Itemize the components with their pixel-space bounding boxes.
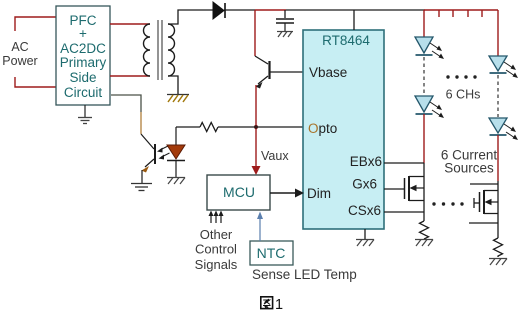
- wire rail to IC supply: [353, 10, 355, 30]
- node channel tick 2: [452, 10, 454, 17]
- transformer T1 primary winding: [144, 24, 151, 76]
- wire secondary bottom to ground: [168, 76, 178, 94]
- ground optocoupler LED (hatched): [167, 178, 185, 185]
- node channel tick 1: [438, 10, 440, 17]
- wire resistor to Opto pin: [218, 126, 303, 128]
- label Other Control Signals: [195, 227, 238, 272]
- label 6 Current Sources: [441, 148, 498, 176]
- optocoupler LED D2: [167, 127, 185, 177]
- wire CS continuation to MOSFET 2: [469, 222, 498, 224]
- wire MCU control pin 1: [209, 211, 214, 224]
- LED D5: [489, 56, 518, 78]
- svg-text:Dim: Dim: [307, 186, 331, 201]
- wire rail black segment: [286, 9, 425, 11]
- LED D4: [415, 96, 444, 118]
- wire arrow into MCU (Vaux supply): [252, 166, 261, 175]
- block NTC: [250, 241, 293, 265]
- capacitor C1: [276, 19, 294, 23]
- wire rail red segment: [255, 9, 286, 11]
- wire aux tan segment: [140, 112, 142, 134]
- svg-text:EBx6: EBx6: [350, 154, 382, 169]
- label AC Power: [2, 40, 37, 68]
- svg-text:CSx6: CSx6: [348, 203, 381, 218]
- svg-text:Circuit: Circuit: [64, 85, 103, 100]
- svg-text:RT8464: RT8464: [322, 33, 370, 48]
- node Vaux junction dot: [254, 125, 258, 129]
- svg-text:MCU: MCU: [223, 184, 255, 200]
- node AC input top wire: [15, 17, 56, 31]
- capacitor C1 top stub: [284, 10, 286, 18]
- ground IC RT8464 (hatched): [356, 240, 374, 247]
- ground MOSFET M2 (hatched): [489, 259, 507, 266]
- svg-text:6 CHs: 6 CHs: [446, 88, 481, 102]
- wire base to Vbase pin: [270, 71, 303, 73]
- wire secondary top to rail: [168, 10, 213, 24]
- pin Opto: [308, 121, 337, 136]
- wire PFC ground stub: [84, 105, 86, 117]
- LED D6: [489, 118, 518, 140]
- ground MOSFET M1 (hatched): [415, 240, 433, 247]
- wire Gx6 to MOSFET gate: [384, 188, 404, 190]
- transformer T1 secondary winding: [168, 24, 175, 76]
- svg-text:Vbase: Vbase: [309, 65, 347, 80]
- wire Dim arrow MCU to IC: [270, 189, 304, 198]
- wire PFC aux output: [111, 95, 141, 112]
- wire LED string 2 down: [497, 135, 499, 181]
- svg-text:NTC: NTC: [257, 245, 286, 261]
- block MCU: [207, 175, 270, 210]
- svg-text:O: O: [308, 121, 319, 136]
- svg-text:Control: Control: [195, 242, 237, 257]
- resistor R3 (sense): [494, 238, 503, 257]
- LED D3: [415, 37, 444, 59]
- wire PFC to transformer primary top: [110, 23, 150, 25]
- svg-text:Power: Power: [2, 54, 37, 68]
- svg-text:1: 1: [275, 297, 283, 312]
- wire rail to transistor collector: [254, 10, 256, 56]
- optocoupler U2 phototransistor: [141, 134, 155, 183]
- wire PFC to transformer primary bottom: [110, 75, 150, 77]
- wire emitter down to Vaux node and MCU: [255, 85, 257, 168]
- wire LED anode to resistor: [176, 126, 200, 128]
- wire dashed LED string 2: [497, 75, 499, 117]
- svg-text:AC: AC: [11, 40, 28, 54]
- ground under PFC box: [78, 118, 92, 124]
- wire diode to transistor node: [224, 9, 255, 11]
- optocoupler light arrows: [157, 146, 170, 160]
- wire dashed LED string 1: [423, 57, 425, 95]
- wire EB continuation to MOSFET 2: [470, 183, 498, 185]
- wire CSx6 to MOSFET source: [384, 211, 424, 213]
- wire rail to LED string 2: [497, 10, 499, 56]
- wire NTC to MCU arrow: [257, 212, 263, 242]
- transformer T1 core: [158, 20, 162, 80]
- ground transformer secondary (hatched): [167, 95, 189, 103]
- svg-text:Signals: Signals: [195, 257, 238, 272]
- svg-text:Sense LED Temp: Sense LED Temp: [252, 267, 357, 282]
- wire EBx6 to LED string 1: [384, 162, 424, 164]
- wire LED string 1 to MOSFET drain: [423, 114, 425, 163]
- svg-text:Primary: Primary: [60, 55, 107, 70]
- resistor R2 (sense): [420, 221, 429, 239]
- transistor M2 (MOSFET): [480, 181, 499, 238]
- label figure caption 图1: [261, 297, 283, 312]
- svg-text:pto: pto: [319, 121, 338, 136]
- ground under phototransistor: [131, 184, 152, 191]
- wire rail to LED string 1: [423, 10, 425, 37]
- wire capacitor to ground: [284, 23, 286, 31]
- svg-text:+: +: [79, 26, 87, 41]
- wire AC input bottom: [15, 77, 56, 87]
- svg-text:Sources: Sources: [444, 161, 494, 176]
- svg-text:Side: Side: [69, 70, 96, 85]
- wire MCU control pin 3: [219, 211, 224, 224]
- ground capacitor (hatched): [277, 32, 293, 38]
- resistor R1 (opto series): [200, 123, 218, 132]
- transistor M1 (MOSFET): [405, 163, 425, 221]
- wire rail right red segment: [424, 9, 498, 11]
- wire gate continuation tick: [474, 198, 479, 208]
- svg-text:Gx6: Gx6: [352, 177, 377, 192]
- IC U1 RT8464: [303, 30, 384, 229]
- node ellipsis between LED strings: [446, 75, 476, 78]
- diode D1: [213, 2, 225, 19]
- node channel tick 3: [467, 10, 469, 17]
- block PFC + AC2DC Primary Side Circuit: [56, 6, 110, 105]
- svg-text:Vaux: Vaux: [261, 149, 289, 163]
- wire MCU control pin 2: [214, 211, 219, 224]
- node channel tick 4: [481, 10, 483, 17]
- transistor Q1: [255, 56, 270, 89]
- svg-text:AC2DC: AC2DC: [60, 41, 106, 56]
- node ellipsis between current sources: [432, 202, 463, 205]
- wire IC ground stub: [364, 229, 366, 239]
- svg-text:Other: Other: [200, 227, 233, 242]
